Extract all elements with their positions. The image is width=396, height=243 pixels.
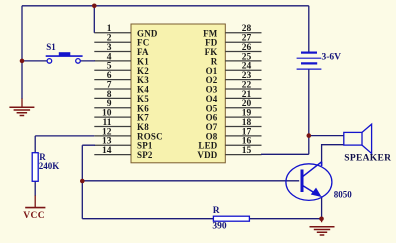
svg-text:14: 14 [102,146,112,156]
svg-text:SPEAKER: SPEAKER [344,154,391,164]
svg-text:VCC: VCC [23,211,45,221]
svg-text:R: R [213,206,220,216]
svg-text:S1: S1 [46,42,56,52]
svg-text:15: 15 [242,146,252,156]
svg-text:SP2: SP2 [137,150,153,160]
svg-text:240K: 240K [39,161,60,171]
svg-text:390: 390 [212,221,227,231]
svg-text:3-6V: 3-6V [322,52,342,62]
svg-text:VDD: VDD [197,150,217,160]
svg-text:8050: 8050 [334,189,353,199]
